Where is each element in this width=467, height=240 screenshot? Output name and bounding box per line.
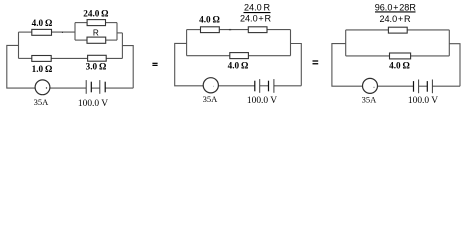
svg-text:4.0 Ω: 4.0 Ω [32,18,53,28]
svg-text:24.0 Ω: 24.0 Ω [83,9,108,19]
svg-text:4.0 Ω: 4.0 Ω [389,61,410,71]
svg-text:100.0 V: 100.0 V [78,99,108,108]
svg-text:96.0 + 28R: 96.0 + 28R [375,2,417,12]
svg-text:24.0 + R: 24.0 + R [240,14,272,24]
svg-text:3.0 Ω: 3.0 Ω [86,61,107,71]
svg-text:4.0 Ω: 4.0 Ω [199,15,220,25]
svg-text:35A: 35A [34,97,50,107]
svg-text:R: R [93,29,99,38]
svg-text:100.0 V: 100.0 V [247,96,277,106]
svg-text:4.0 Ω: 4.0 Ω [228,60,249,70]
svg-text:35A: 35A [203,94,219,104]
svg-text:24.0 + R: 24.0 + R [379,14,411,24]
svg-text:35A: 35A [362,94,378,104]
svg-text:1.0 Ω: 1.0 Ω [32,64,53,74]
svg-text:100.0 V: 100.0 V [408,96,438,106]
svg-text:24.0 R: 24.0 R [244,2,271,12]
